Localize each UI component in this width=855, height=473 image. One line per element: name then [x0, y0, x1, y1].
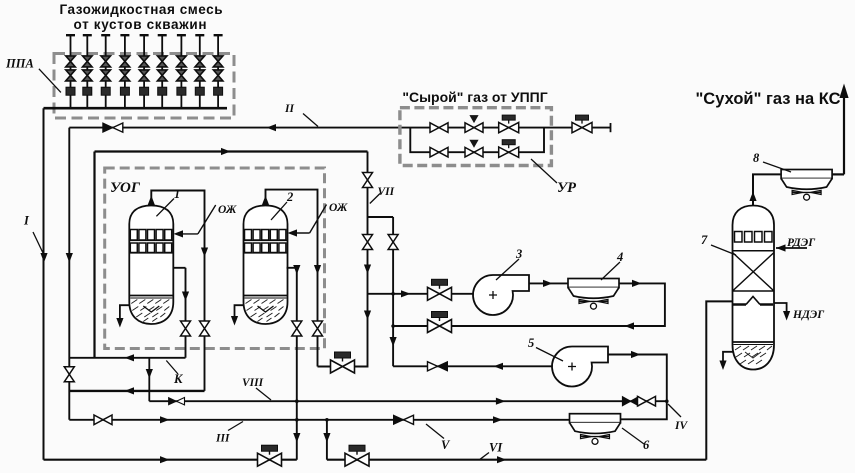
wire: vertical VII (loop right downcomer)	[318, 152, 368, 367]
junction dot line IV tee	[665, 399, 669, 403]
valve on parallel vertical	[388, 235, 398, 250]
svg-text:5: 5	[528, 336, 534, 350]
svg-text:Газожидкостная смесь: Газожидкостная смесь	[60, 2, 223, 17]
svg-text:НДЭГ: НДЭГ	[792, 309, 824, 321]
column tray divider	[733, 250, 775, 252]
air cooler 6	[570, 414, 621, 445]
wire: line II drop (left distribution vertical)	[68, 128, 70, 420]
check valve on line VIII	[169, 398, 185, 405]
wire: UR lower branch	[410, 128, 544, 153]
junction dot vessel2 leg crossing VIII	[295, 399, 299, 403]
wire: branch line V down to run B	[326, 420, 328, 460]
svg-text:ОЖ: ОЖ	[329, 202, 348, 214]
flow arrow on loop top header	[221, 148, 231, 155]
wire: bottom header run B to column	[327, 459, 706, 461]
flow arrow pump3 suction	[401, 290, 411, 297]
motor valve UR lower branch	[499, 140, 519, 158]
control valve UR lower branch	[465, 147, 483, 157]
check valve on line II	[103, 123, 123, 132]
well riser 5	[139, 35, 149, 108]
svg-text:6: 6	[643, 438, 650, 452]
flow arrow down on line I	[40, 253, 47, 263]
flow arrow down vessel2 leg lower	[293, 433, 300, 443]
flow arrow down on jog	[146, 369, 153, 379]
flow arrow pump 5 discharge	[631, 351, 641, 358]
pointer 8	[763, 162, 791, 172]
valve on vessel 1 gas riser	[200, 321, 210, 336]
svg-text:8: 8	[753, 151, 760, 165]
check valve on line V	[394, 415, 414, 424]
valve VII upper	[363, 173, 373, 188]
junction dot return tee	[391, 324, 395, 328]
valve on line V left	[94, 415, 112, 425]
flow arrow line V left	[160, 416, 170, 423]
dashed enclosure UOG (separation unit)	[105, 168, 325, 349]
OZh arrow into vessel 1	[177, 205, 216, 234]
flow arrow up on vessel 1 nozzle	[148, 196, 155, 206]
wire: cooler 4 outlet loop back	[393, 283, 665, 326]
pointer V	[426, 424, 444, 439]
svg-text:7: 7	[701, 233, 708, 247]
flow arrow cooler 4 outlet	[632, 280, 642, 287]
svg-text:2: 2	[286, 190, 293, 204]
control valve UR top branch	[465, 123, 483, 133]
well riser 7	[177, 35, 187, 108]
svg-text:УР: УР	[557, 180, 576, 196]
flow arrow on return y326	[625, 322, 635, 329]
flow arrow pump3 discharge	[543, 280, 553, 287]
wire: pump 3 suction line	[368, 293, 474, 295]
well riser 1 (cap, two valves, choke)	[66, 35, 76, 108]
dashed enclosure PPA (well manifold)	[54, 54, 234, 119]
NDEG outlet line with arrow	[774, 303, 787, 316]
svg-text:VIII: VIII	[242, 377, 264, 389]
svg-text:"Сырой" газ от УППГ: "Сырой" газ от УППГ	[402, 89, 547, 105]
wire: jog from line K down to line VIII	[148, 358, 150, 401]
wire: column overhead to separator 8	[753, 174, 783, 205]
blower 5	[552, 347, 608, 387]
flow arrow on lower header	[125, 387, 135, 394]
pointer 3	[496, 259, 519, 280]
wire: gas loop left downcomer	[93, 152, 95, 358]
check valve pump 5 suction	[428, 362, 448, 371]
pointer II	[303, 114, 318, 127]
RDEG inlet line with arrow	[776, 247, 807, 249]
pointer VIII	[256, 388, 271, 400]
vessel 2 drain with arrow	[235, 305, 245, 320]
svg-text:VI: VI	[489, 441, 503, 455]
valve UR top branch inlet	[430, 123, 448, 133]
flow arrow up on vessel 2 nozzle	[262, 196, 269, 206]
dashed enclosure UR (metering unit)	[400, 108, 552, 166]
pointer VII	[370, 194, 380, 204]
junction dot pump3 suction tee	[391, 292, 395, 296]
svg-text:1: 1	[174, 187, 180, 201]
wire: line V	[69, 419, 569, 421]
wire: pump 5 discharge to cooler 6	[608, 355, 667, 420]
svg-text:IV: IV	[674, 420, 688, 432]
arrow up dry gas	[839, 84, 848, 99]
separator 8 (scrubber)	[781, 170, 832, 201]
flow arrow on run A	[160, 456, 170, 463]
svg-text:"Сухой" газ на КС: "Сухой" газ на КС	[695, 90, 840, 108]
wire: condensate line K	[69, 357, 185, 359]
flow arrow pump5 suction	[494, 363, 504, 370]
svg-text:УОГ: УОГ	[110, 180, 141, 196]
pointer UR	[531, 159, 557, 183]
flow arrow down on parallel vertical	[390, 337, 397, 347]
valve on downcomer VII mid	[363, 235, 373, 250]
wire: line II horizontal (raw gas header)	[69, 127, 610, 129]
column liquid hatch	[735, 346, 772, 364]
wire: pump 3 discharge	[529, 282, 568, 284]
flow arrow down on VII downcomer	[364, 265, 371, 275]
wire: pump 5 suction line	[393, 365, 552, 367]
vessel 1 drain with arrow	[120, 305, 129, 322]
pointer PPA	[39, 69, 61, 93]
flow arrow on line K	[125, 354, 135, 361]
column liquid level	[733, 341, 775, 343]
motor valve downstream of UR	[572, 115, 592, 133]
flow arrow down vessel1 bottoms leg	[182, 292, 189, 302]
open valve on line IV	[638, 396, 656, 406]
pointer 1	[156, 199, 174, 217]
actuated valve on run B	[345, 445, 369, 466]
svg-text:РДЭГ: РДЭГ	[787, 237, 815, 249]
svg-text:ОЖ: ОЖ	[218, 204, 237, 216]
svg-text:VII: VII	[378, 186, 395, 198]
flow arrow on run B	[497, 456, 507, 463]
separator vessel 2	[244, 206, 288, 325]
flow arrow down on branch	[323, 433, 330, 443]
wire: line VIII / IV long header	[149, 400, 667, 402]
blower 3	[473, 275, 529, 315]
separator vessel 1	[129, 206, 173, 325]
flow arrow down on VII downcomer lower	[364, 311, 371, 321]
flow arrow down vessel2 gas riser	[314, 265, 321, 275]
valve on distribution vertical	[64, 367, 74, 382]
junction dot on line V branch	[325, 418, 329, 422]
motor valve UR top branch	[499, 115, 519, 133]
wire: vessel 1 bottoms stub and valve leg	[173, 268, 186, 358]
flow arrow down vessel2 bottoms leg	[293, 265, 300, 275]
wire: vessel 2 overhead nozzle	[266, 190, 318, 367]
well riser 3	[101, 35, 111, 108]
column bubble caps row	[735, 232, 773, 243]
wire: cross link y217	[368, 216, 394, 218]
column packing X section	[733, 253, 775, 292]
valve on vessel 2 gas riser	[313, 321, 323, 336]
wire: gas loop top header	[95, 150, 368, 152]
flow arrow down on distribution vertical	[66, 253, 73, 263]
pointer III	[228, 422, 243, 431]
pointer K	[166, 361, 178, 375]
actuated valve between vessel2 riser and VII downcomer	[331, 352, 355, 373]
OZh arrow into vessel 2	[291, 205, 327, 234]
svg-text:I: I	[23, 214, 30, 228]
svg-text:II: II	[284, 103, 294, 115]
pointer VI	[480, 453, 489, 460]
wire: dry gas riser to KS	[843, 96, 845, 174]
svg-text:К: К	[173, 372, 184, 386]
wire: vessel 2 bottoms stub and leg to bottom header	[287, 268, 297, 460]
well riser 9	[213, 35, 223, 108]
svg-text:ППА: ППА	[5, 57, 34, 71]
air cooler 4	[568, 279, 619, 310]
pointer 4	[601, 262, 620, 280]
well riser 2	[83, 35, 93, 108]
well riser 8	[195, 35, 205, 108]
solid actuator triangle top branch	[469, 115, 478, 123]
wire: inlet collector header	[44, 107, 228, 110]
pointer I	[33, 232, 43, 253]
solid actuator triangle lower branch	[469, 140, 478, 148]
pointer 2	[271, 202, 287, 220]
pointer 6	[622, 428, 644, 444]
column bottoms drain with arrow	[723, 352, 733, 365]
wire: vessel 1 overhead nozzle	[151, 191, 204, 391]
absorber column 7 shell	[733, 206, 775, 370]
actuated valve on return line y326	[428, 312, 452, 333]
pointer 7	[711, 245, 736, 255]
filled valve pair on line IV	[623, 397, 639, 406]
end cap of line II	[610, 123, 612, 132]
wire: column feed riser	[706, 301, 732, 459]
well riser 6	[157, 35, 167, 108]
wire: line I (left vertical main)	[43, 108, 45, 460]
junction dot vessel2 leg crossing V	[295, 418, 299, 422]
flow arrow line V right	[493, 416, 503, 423]
wire: lower header y391	[69, 390, 204, 392]
svg-text:V: V	[441, 438, 451, 452]
wire: separator 8 outlet to riser	[830, 173, 844, 175]
flow arrow left on line II	[267, 124, 277, 131]
valve on vessel 2 bottoms leg	[292, 321, 302, 336]
svg-text:от кустов скважин: от кустов скважин	[74, 17, 207, 32]
flow arrow on line VIII/IV	[496, 398, 506, 405]
actuated valve on run A	[258, 445, 282, 466]
actuated valve pump 3 suction	[428, 279, 452, 300]
flow arrow down vessel1 gas riser	[201, 248, 208, 258]
valve on vessel 1 bottoms leg	[181, 321, 191, 336]
svg-text:III: III	[215, 433, 230, 445]
pointer 5	[536, 348, 563, 362]
wire: bottom header run A (line I to vessel2 leg)	[44, 459, 297, 461]
wire: parallel vertical x393	[392, 217, 394, 366]
well riser 4	[120, 35, 130, 108]
flow arrow up column overhead	[749, 192, 756, 202]
pointer IV	[668, 404, 681, 417]
valve UR lower branch inlet	[430, 147, 448, 157]
column chimney tray	[733, 303, 773, 306]
